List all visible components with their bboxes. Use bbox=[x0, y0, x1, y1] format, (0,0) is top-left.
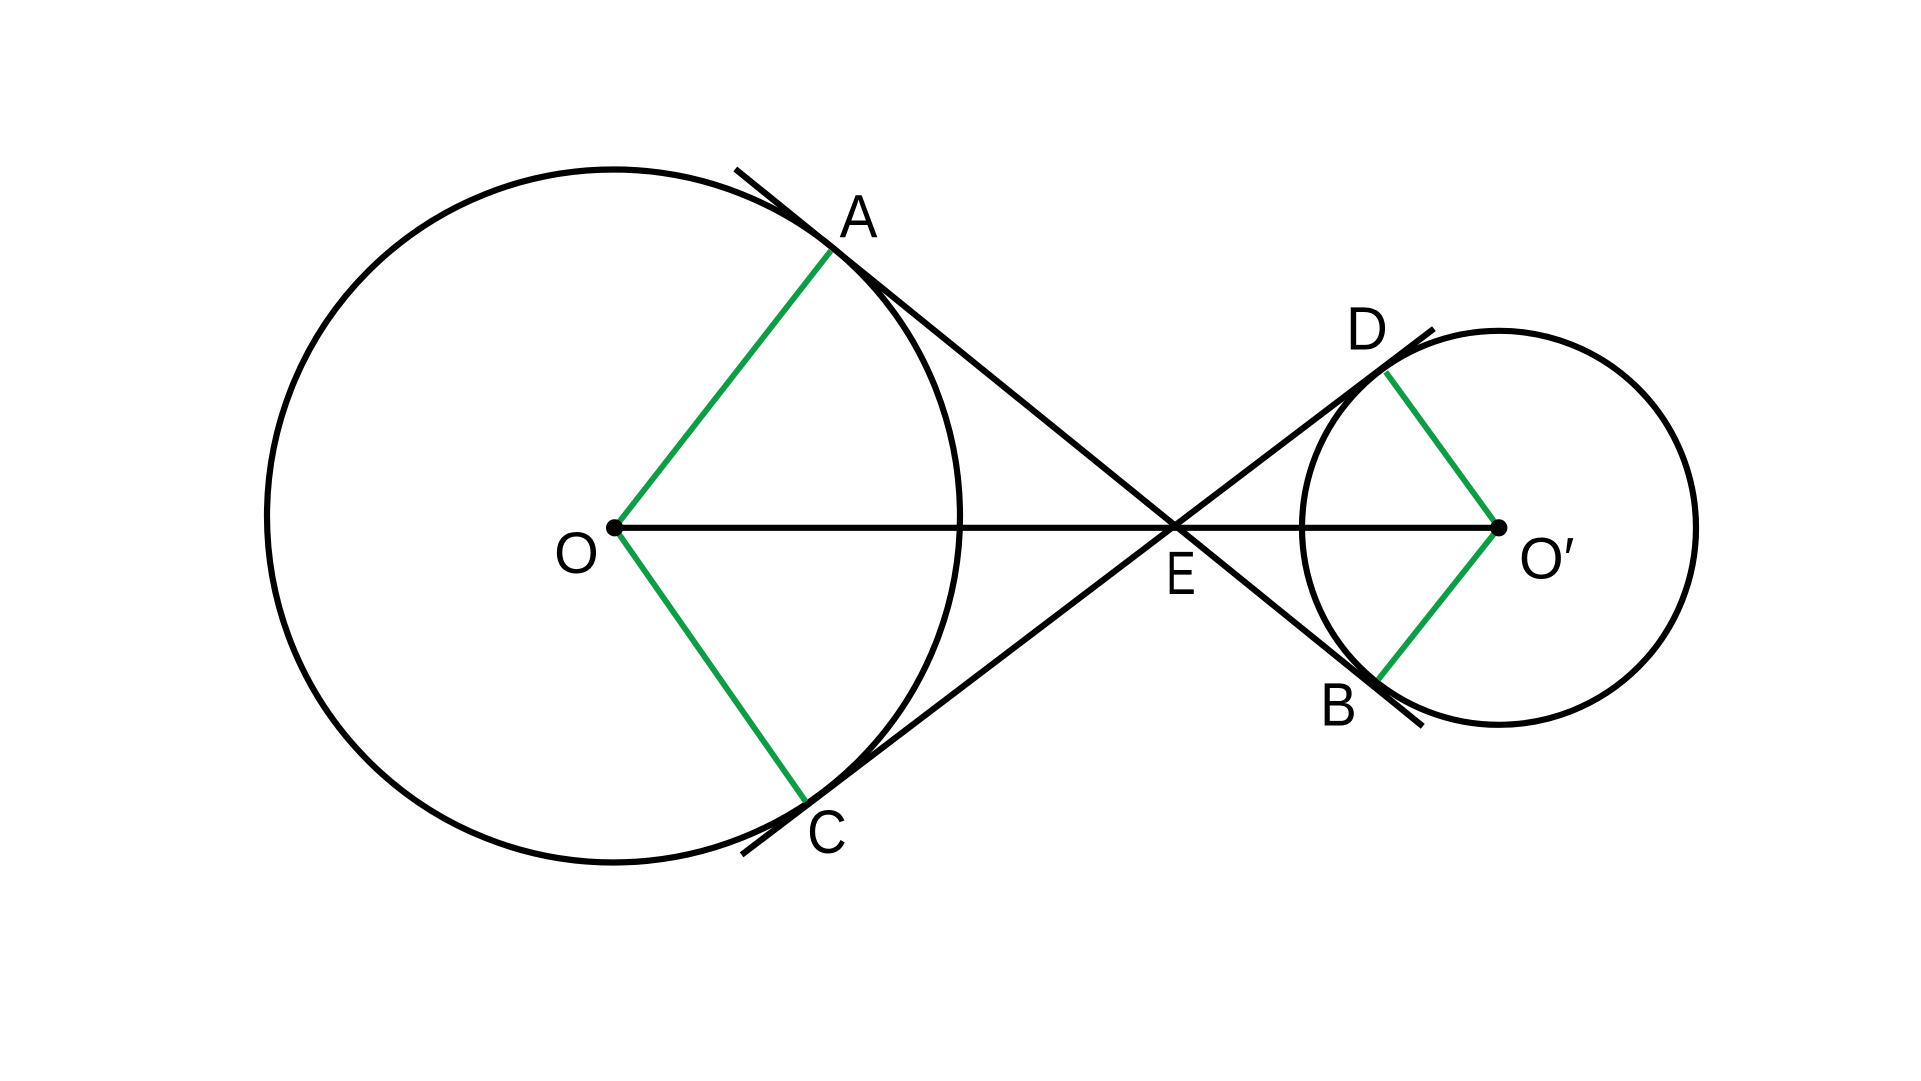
svg-text:E: E bbox=[1166, 541, 1196, 608]
svg-text:D: D bbox=[1346, 294, 1388, 363]
svg-text:C: C bbox=[807, 798, 847, 866]
svg-text:O: O bbox=[554, 522, 599, 586]
svg-text:B: B bbox=[1320, 671, 1357, 739]
svg-text:O′: O′ bbox=[1519, 527, 1574, 591]
svg-text:A: A bbox=[840, 184, 879, 251]
